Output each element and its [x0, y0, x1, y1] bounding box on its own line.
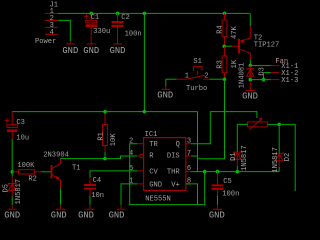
pin 1 GND [129, 178, 144, 186]
svg-text:6: 6 [187, 165, 191, 173]
ground J1 [62, 41, 78, 56]
svg-text:GND: GND [149, 181, 162, 189]
wire D2 to THR [278, 167, 280, 172]
svg-text:100n: 100n [222, 191, 239, 199]
wire S1 node down to DIS riser [198, 79, 225, 159]
wire pin7 DIS to riser [191, 155, 198, 157]
junction THR/C5 [216, 170, 220, 174]
wire THR line [191, 171, 279, 173]
svg-text:X1-3: X1-3 [281, 77, 298, 85]
wire T2 collector to fan node [249, 53, 251, 65]
svg-text:4: 4 [50, 29, 54, 37]
svg-text:DIS: DIS [167, 153, 180, 161]
svg-text:1N4081: 1N4081 [239, 63, 247, 89]
resistor R1 10K [97, 112, 118, 159]
wire +12V distribution line [12, 111, 197, 113]
resistor R2 100K [12, 162, 41, 183]
wire trimmer right to D2 [267, 123, 279, 125]
wire D5 to GND [11, 196, 13, 205]
junction rail/v144 [143, 12, 147, 16]
pin 8 V+ [186, 178, 191, 186]
junction rail/C2 [116, 12, 120, 16]
svg-text:V+: V+ [171, 181, 180, 189]
wire C3 to R2/D5 node [11, 139, 13, 176]
ground IC1 [109, 205, 126, 221]
svg-text:R2: R2 [28, 175, 37, 183]
junction collector/R1 [103, 157, 107, 161]
junction D2 top / V+ [277, 123, 281, 127]
svg-text:2: 2 [204, 73, 208, 81]
wire X1-1 [250, 65, 270, 67]
diode D3 1N4001 [239, 63, 267, 89]
svg-text:GND: GND [4, 210, 20, 220]
wire R2 to T1 base [41, 171, 51, 173]
svg-text:T1: T1 [72, 165, 81, 173]
wire S1 to GND [165, 79, 167, 86]
svg-text:8: 8 [187, 178, 191, 186]
svg-text:100K: 100K [17, 162, 35, 170]
svg-text:J1: J1 [50, 2, 59, 10]
ground C1 [83, 41, 99, 56]
pin 5 CV [129, 165, 144, 173]
wire X1-2 jog [264, 73, 271, 80]
svg-text:GND: GND [242, 91, 258, 101]
svg-text:TR: TR [149, 141, 158, 149]
diode D2 1N5817 [272, 147, 292, 173]
ground C2 [110, 41, 126, 56]
ground C4 [78, 205, 94, 221]
resistor R3 1K [217, 46, 239, 79]
svg-text:D1: D1 [230, 152, 238, 161]
svg-text:GND: GND [83, 46, 99, 56]
svg-text:1N5817: 1N5817 [15, 179, 23, 205]
svg-text:C2: C2 [121, 14, 130, 22]
connector J1 [35, 2, 58, 46]
svg-text:D2: D2 [284, 153, 292, 162]
svg-text:3: 3 [187, 138, 191, 146]
pin 3 Q [186, 138, 191, 146]
wire T1 emitter to GND [60, 189, 62, 205]
svg-text:1N5817: 1N5817 [241, 145, 249, 171]
svg-text:R4: R4 [217, 25, 225, 34]
junction THR/TR [203, 170, 207, 174]
svg-text:10K: 10K [110, 133, 118, 147]
wire D2 riser [278, 124, 280, 153]
junction dist/R1 [103, 110, 107, 114]
svg-text:7: 7 [187, 150, 191, 158]
svg-text:GND: GND [157, 90, 173, 100]
transistor T1 2N3904 [43, 151, 80, 188]
junction rail/C1 [89, 12, 93, 16]
wire pin3 Q to trimmer wiper [191, 112, 257, 144]
junction rail/R4 [223, 12, 227, 16]
svg-text:C4: C4 [93, 177, 102, 185]
junction collector/D3/X1-1 [249, 64, 253, 68]
svg-text:GND: GND [78, 210, 94, 220]
wire pin1 to GND [121, 184, 137, 205]
wire +12V rail [58, 12, 250, 14]
svg-text:TIP127: TIP127 [254, 42, 280, 50]
timer IC1 NE555N [144, 131, 186, 203]
ground D5 [4, 205, 20, 221]
ground C5 [209, 205, 225, 221]
svg-text:Turbo: Turbo [186, 85, 207, 93]
svg-text:330u: 330u [93, 28, 110, 36]
svg-text:Q: Q [176, 141, 180, 149]
wire pin8 V+ riser [186, 184, 198, 205]
junction D3/X1-3/GND [249, 78, 253, 82]
wire C5 to GND [217, 196, 219, 205]
svg-text:NE555N: NE555N [145, 195, 171, 203]
svg-text:1N5817: 1N5817 [272, 147, 280, 173]
capacitor C1 330u [84, 13, 110, 41]
capacitor C3 10u [5, 112, 29, 143]
capacitor C2 100n [112, 13, 142, 41]
wire X1-3 [250, 79, 270, 81]
pin 7 DIS [186, 150, 191, 158]
svg-text:GND: GND [62, 46, 78, 56]
trimmer R5 [248, 118, 268, 130]
svg-text:GND: GND [109, 210, 125, 220]
svg-text:Power: Power [35, 38, 56, 46]
svg-text:CV: CV [149, 168, 158, 176]
wire rail to +12V distribution line [143, 13, 145, 111]
wire trimmer left to D1 [237, 124, 247, 152]
wire TR net (pin2 down and around to THR) [130, 144, 205, 205]
ground S1 [157, 86, 173, 100]
svg-text:THR: THR [167, 168, 181, 176]
junction R3/S1 [223, 77, 227, 81]
svg-text:100n: 100n [125, 30, 142, 38]
junction R4/R3/T2 base [222, 44, 226, 48]
junction dist/v144 [143, 110, 147, 114]
capacitor C5 100n [212, 172, 240, 199]
svg-text:1: 1 [185, 73, 189, 81]
svg-text:R3: R3 [217, 60, 225, 69]
diode D5 1N5817 [2, 176, 22, 204]
wire C4 to GND [89, 196, 91, 205]
svg-text:C5: C5 [223, 178, 232, 186]
junction X1-2/X1-3 [262, 78, 265, 81]
transistor T2 TIP127 [239, 13, 279, 53]
svg-text:GND: GND [110, 46, 126, 56]
svg-text:10n: 10n [91, 192, 104, 200]
switch S1 Turbo [166, 58, 225, 93]
capacitor C4 10n [84, 171, 137, 200]
wire riser to THR line [197, 112, 199, 172]
svg-text:GND: GND [51, 210, 67, 220]
svg-text:IC1: IC1 [145, 131, 158, 139]
svg-text:S1: S1 [193, 58, 202, 66]
svg-text:GND: GND [209, 210, 225, 220]
connector X1 Fan [271, 58, 299, 85]
pin 4 R (inverted) [129, 150, 144, 158]
svg-text:D5: D5 [2, 184, 10, 193]
svg-text:C3: C3 [16, 119, 25, 127]
wire V+ right riser [279, 124, 295, 191]
wire J1 pin2 to GND [58, 20, 71, 41]
svg-text:47K: 47K [231, 25, 239, 39]
junction THR/D1 [236, 170, 240, 174]
wire D3 to GND [249, 81, 251, 90]
svg-text:10u: 10u [16, 135, 29, 143]
wire D1 to THR [236, 166, 238, 172]
resistor R4 47K [217, 13, 239, 46]
svg-text:D3: D3 [258, 67, 266, 76]
svg-text:R1: R1 [97, 132, 105, 141]
wire T2 base [224, 45, 238, 47]
ground D3 [242, 91, 258, 102]
pin 6 THR [186, 165, 191, 173]
pin 2 TR [129, 138, 144, 146]
diode D1 1N5817 [230, 145, 249, 171]
ground T1 [51, 205, 67, 221]
svg-text:R: R [149, 153, 154, 161]
svg-text:C1: C1 [91, 14, 100, 22]
wire T1 collector line to pin 4 [61, 156, 138, 159]
junction node/R2 [10, 170, 14, 174]
